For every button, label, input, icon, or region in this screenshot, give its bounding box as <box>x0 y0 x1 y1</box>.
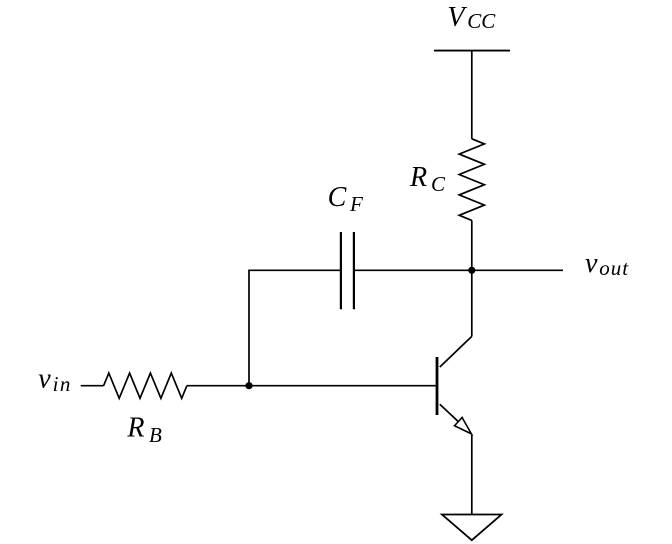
transistor Q1 emitter arrowhead <box>455 418 472 434</box>
svg-text:C: C <box>328 182 347 213</box>
svg-text:F: F <box>349 192 363 216</box>
label VCC <box>447 2 496 33</box>
wire RC bottom to output node <box>471 220 473 270</box>
power rail VCC <box>434 50 510 52</box>
node base junction dot <box>245 382 252 389</box>
capacitor CF left plate <box>340 232 342 309</box>
svg-text:v: v <box>38 363 51 394</box>
resistor RB <box>104 373 187 398</box>
wire capacitor left lead <box>248 269 341 271</box>
wire VCC rail to RC top <box>471 51 473 139</box>
wire base node up to capacitor <box>248 270 250 385</box>
label RB <box>126 413 162 447</box>
transistor Q1 emitter lead <box>440 404 459 421</box>
svg-text:C: C <box>431 172 446 196</box>
svg-text:v: v <box>585 248 598 279</box>
resistor RC <box>459 139 484 221</box>
svg-text:V: V <box>447 2 467 33</box>
wire base node to transistor base <box>187 385 438 387</box>
wire output node down to collector <box>471 270 473 336</box>
transistor Q1 collector lead <box>440 336 472 367</box>
label CF <box>328 182 363 216</box>
transistor Q1 base bar <box>436 357 439 415</box>
label vin <box>38 363 71 396</box>
wire vin to RB <box>81 385 104 387</box>
node output junction dot <box>468 267 475 274</box>
svg-text:in: in <box>53 372 72 396</box>
label RC <box>409 162 446 196</box>
wire output node to vout <box>472 269 563 271</box>
svg-text:CC: CC <box>467 9 496 33</box>
svg-text:R: R <box>409 162 427 193</box>
label vout <box>585 248 629 280</box>
svg-text:B: B <box>149 423 162 447</box>
wire capacitor right lead to output node <box>354 269 472 271</box>
svg-text:R: R <box>126 413 144 444</box>
wire emitter to ground <box>471 435 473 515</box>
ground symbol <box>442 515 502 541</box>
svg-text:out: out <box>599 256 629 280</box>
capacitor CF right plate <box>353 232 355 309</box>
